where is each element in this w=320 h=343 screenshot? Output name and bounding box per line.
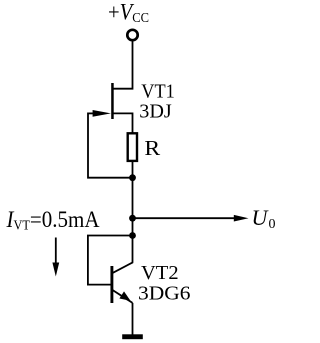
wire source of VT1 to resistor R [113,113,132,132]
transistor VT2 emitter lead with arrow [113,290,133,303]
svg-text:0: 0 [269,217,276,232]
arrow Ivt current direction [55,238,57,265]
node B junction dot [129,215,136,222]
ground [122,334,143,339]
svg-text:3DJ: 3DJ [139,100,172,122]
svg-text:U: U [252,205,270,230]
svg-text:VT2: VT2 [141,262,179,284]
node C junction dot [129,232,136,239]
wire resistor to collector of VT2 [132,161,134,263]
transistor VT1 channel bar [111,83,114,119]
svg-text:R: R [144,136,160,160]
wire Vcc to drain of VT1 [113,40,132,88]
wire emitter of VT2 to ground [132,303,134,335]
wire node C to base of VT2 [88,236,133,285]
resistor R [128,133,137,161]
svg-text:VT1: VT1 [141,81,175,103]
gate lead of VT1 with arrow [88,112,95,114]
transistor VT2 collector lead [113,262,133,273]
wire gate feedback to node A [88,113,130,178]
svg-text:3DG6: 3DG6 [138,282,191,304]
terminal Vcc [127,30,137,40]
transistor VT2 base bar [110,266,113,303]
svg-text:IVT=0.5mA: IVT=0.5mA [6,207,100,233]
svg-text:+VCC: +VCC [108,0,149,26]
node A junction dot [129,174,136,181]
wire output with arrow [133,217,238,219]
